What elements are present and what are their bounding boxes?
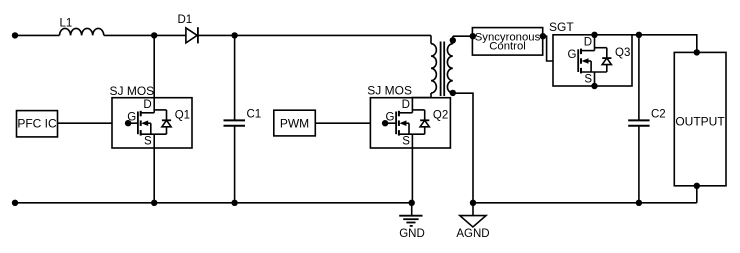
node secondary bottom bbox=[450, 90, 456, 96]
node C2 top junction bbox=[636, 32, 642, 38]
SJ MOS box (Q1) bbox=[110, 84, 193, 148]
PFC IC box bbox=[17, 111, 58, 137]
wire secondary top to control bbox=[453, 35, 473, 37]
svg-text:PFC IC: PFC IC bbox=[17, 117, 57, 131]
PWM box bbox=[274, 110, 316, 136]
ground GND bbox=[399, 203, 425, 240]
node secondary top bbox=[450, 36, 456, 44]
wire control to Q3 gate bbox=[543, 36, 578, 61]
node C1 bottom junction bbox=[231, 200, 237, 206]
wire C1 top bbox=[234, 35, 236, 120]
wire primary ground rail bbox=[15, 202, 412, 204]
svg-text:Q1: Q1 bbox=[175, 109, 190, 121]
svg-text:G: G bbox=[568, 49, 577, 61]
svg-text:SJ MOS: SJ MOS bbox=[367, 84, 412, 98]
capacitor C2 bbox=[628, 108, 666, 125]
wire secondary ground rail bbox=[473, 202, 697, 204]
svg-text:G: G bbox=[385, 111, 394, 123]
SGT box (Q3) bbox=[549, 20, 632, 86]
svg-text:S: S bbox=[402, 136, 410, 148]
node B (C1 junction) bbox=[231, 32, 237, 38]
wire OUTPUT bottom to rail bbox=[696, 186, 698, 203]
transformer T1 secondary bbox=[447, 44, 452, 93]
transistor Q1 bbox=[125, 99, 190, 148]
inductor L1 bbox=[60, 17, 104, 35]
svg-text:D: D bbox=[402, 99, 410, 111]
svg-text:G: G bbox=[127, 111, 136, 123]
node control in bbox=[470, 33, 476, 39]
transformer T1 core bbox=[441, 42, 445, 97]
wire primary top bbox=[430, 35, 432, 43]
transformer T1 primary bbox=[431, 44, 436, 93]
wire bbox=[104, 34, 186, 36]
svg-text:AGND: AGND bbox=[456, 228, 489, 240]
OUTPUT box bbox=[674, 52, 726, 185]
node C2 bottom junction bbox=[636, 200, 642, 206]
wire Q3 drain bbox=[591, 32, 597, 51]
capacitor C1 bbox=[224, 108, 262, 125]
wire PWM to Q2 gate bbox=[315, 122, 385, 124]
svg-text:D1: D1 bbox=[178, 14, 193, 26]
node GND junction bbox=[409, 200, 415, 206]
diode D1 bbox=[178, 14, 198, 43]
node AGND junction bbox=[470, 200, 476, 206]
svg-text:Q2: Q2 bbox=[433, 109, 448, 121]
wire primary to Q2 drain bbox=[412, 93, 431, 113]
svg-text:Q3: Q3 bbox=[615, 47, 630, 59]
wire C2 top bbox=[638, 35, 640, 121]
node OUTPUT bottom bbox=[694, 183, 700, 189]
wire C1 bottom bbox=[234, 126, 236, 203]
wire Q1 source to rail bbox=[153, 134, 155, 203]
wire bbox=[15, 34, 60, 36]
svg-text:GND: GND bbox=[399, 228, 425, 240]
svg-text:L1: L1 bbox=[60, 17, 73, 29]
svg-text:SJ MOS: SJ MOS bbox=[110, 84, 155, 98]
svg-text:C2: C2 bbox=[651, 108, 666, 120]
node IN- terminal bbox=[12, 200, 18, 206]
node Q1 source junction bbox=[151, 200, 157, 206]
ground AGND bbox=[456, 203, 489, 240]
svg-text:C1: C1 bbox=[247, 108, 262, 120]
wire C2 bottom bbox=[638, 126, 640, 203]
svg-text:S: S bbox=[584, 73, 592, 85]
svg-text:D: D bbox=[584, 37, 592, 49]
wire Q1 drain bbox=[153, 35, 155, 112]
wire SGT to OUTPUT bbox=[632, 35, 697, 53]
svg-text:OUTPUT: OUTPUT bbox=[675, 114, 725, 128]
transistor Q2 bbox=[382, 99, 448, 148]
svg-text:PWM: PWM bbox=[280, 116, 309, 130]
SJ MOS box (Q2) bbox=[367, 84, 450, 149]
wire bbox=[198, 34, 431, 36]
node control out bbox=[540, 33, 546, 39]
wire PFC IC to Q1 gate bbox=[58, 122, 129, 124]
svg-text:D: D bbox=[143, 99, 151, 111]
svg-text:Control: Control bbox=[489, 41, 526, 53]
transistor Q3 bbox=[568, 37, 631, 86]
svg-text:SGT: SGT bbox=[549, 20, 574, 34]
node A (Q1 drain junction) bbox=[151, 32, 157, 38]
wire secondary bottom to AGND bbox=[453, 93, 473, 203]
Syncyronous Control box bbox=[472, 28, 542, 55]
node IN+ terminal bbox=[12, 32, 18, 38]
wire Q3 source bbox=[591, 72, 597, 89]
wire Q2 source to GND rail bbox=[411, 134, 413, 203]
node OUTPUT top bbox=[694, 49, 700, 55]
svg-text:S: S bbox=[144, 136, 152, 148]
